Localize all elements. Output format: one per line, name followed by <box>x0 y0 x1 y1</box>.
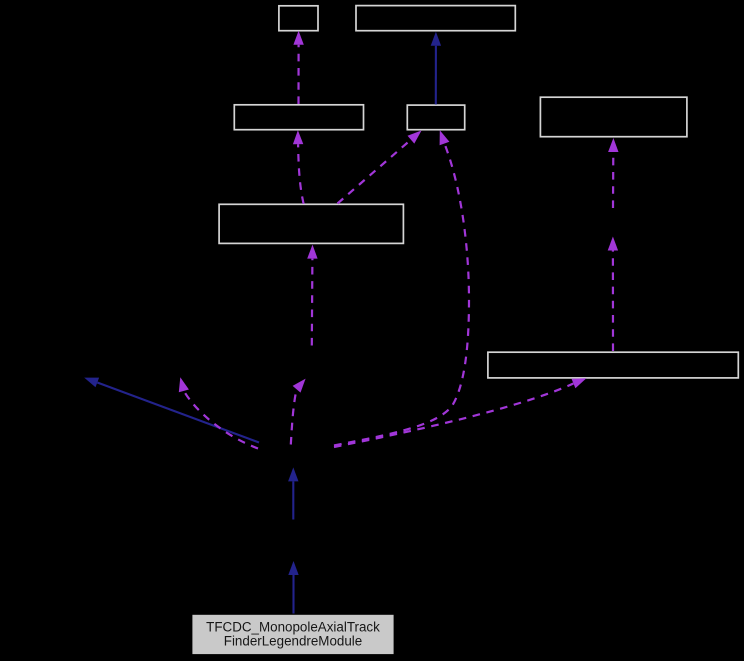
svg-text:TFCDC_MonopoleAxialTrack: TFCDC_MonopoleAxialTrack <box>206 619 380 634</box>
svg-text:FinderLegendreModule: FinderLegendreModule <box>224 634 362 649</box>
